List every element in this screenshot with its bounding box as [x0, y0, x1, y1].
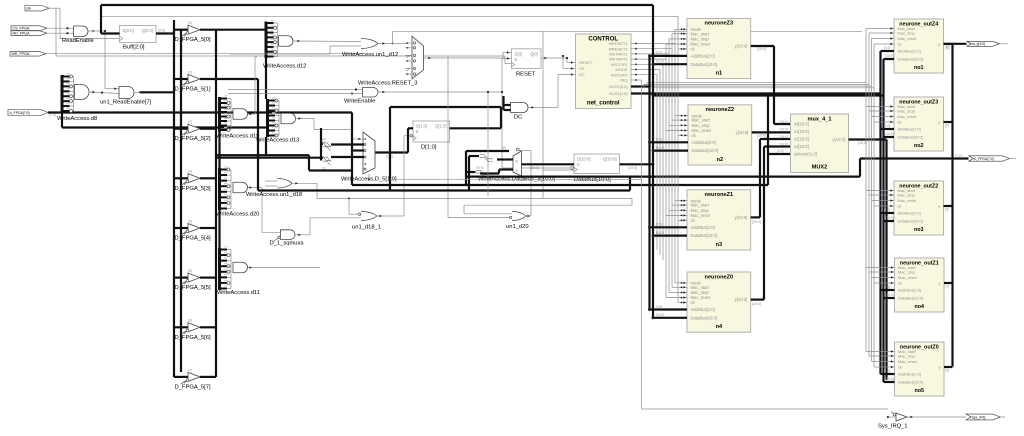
wires n2 input pins [666, 115, 688, 137]
svg-text:WriteAccess.un1_d12: WriteAccess.un1_d12 [342, 52, 398, 58]
AND gate ReadEnable [62, 26, 105, 44]
bus wire MUX2 output [849, 138, 887, 145]
svg-text:selector[1:0]: selector[1:0] [794, 152, 817, 157]
svg-text:D_FPGA_5[7]: D_FPGA_5[7] [175, 384, 211, 390]
svg-text:Q[10:0]: Q[10:0] [603, 157, 617, 162]
output port D_FPGA[7:0] [955, 154, 1016, 161]
bus rail internal data [215, 30, 217, 377]
tri-state buffer D_FPGA_5[5] [174, 269, 216, 291]
svg-text:ck: ck [898, 42, 902, 47]
bus wire n4 y output to MUX2 x3 [751, 147, 791, 307]
svg-text:D_FPGA_5[5]: D_FPGA_5[5] [175, 285, 211, 291]
svg-text:[6]: [6] [188, 319, 192, 323]
svg-text:[10:8]: [10:8] [476, 166, 484, 170]
svg-text:WriteAccess.d19: WriteAccess.d19 [216, 134, 259, 140]
svg-text:[10:0]: [10:0] [780, 128, 788, 132]
module neurone_outZ0 no5 [895, 342, 945, 396]
bus rail D_FPGA input and enable [174, 20, 181, 377]
label bus width [0, 0, 1, 1]
svg-text:AddrBus[2:0]: AddrBus[2:0] [691, 225, 715, 230]
svg-text:RD_FPGA: RD_FPGA [13, 32, 31, 36]
decoder WriteAccess.d13 [256, 97, 299, 143]
svg-text:no5: no5 [914, 388, 924, 394]
tri-state buffer D_FPGA_5[1] [174, 70, 258, 92]
svg-text:D[2:0]: D[2:0] [123, 28, 134, 33]
svg-text:D_FPGA_5[4]: D_FPGA_5[4] [175, 236, 211, 242]
tri-state buffer D_FPGA_5[4] [174, 219, 216, 241]
mux WriteAccess.DataBus_3[10:0] [478, 148, 555, 182]
svg-text:D_FPGA_5[0]: D_FPGA_5[0] [175, 37, 211, 43]
svg-text:x2[10:0]: x2[10:0] [794, 137, 809, 142]
svg-text:[1]: [1] [188, 70, 192, 74]
bus wire BUS1 to AddrBus trunk [631, 85, 651, 88]
svg-text:Mac_stop: Mac_stop [898, 270, 916, 275]
svg-text:n2: n2 [717, 157, 724, 163]
wire clk net to RESET clock [56, 8, 512, 63]
svg-text:E: E [416, 129, 419, 134]
wire clk to CONTROL CK [562, 55, 576, 70]
svg-text:AddrBus[2:0]: AddrBus[2:0] [691, 54, 715, 59]
svg-text:D_FPGA_5[3]: D_FPGA_5[3] [175, 186, 211, 192]
svg-text:ck: ck [898, 365, 902, 370]
bus trunks AddrBus DataBus [650, 5, 654, 318]
wires CONTROL outputs [631, 43, 675, 81]
svg-text:DataBus[10:0]: DataBus[10:0] [692, 148, 719, 153]
input port clk [25, 6, 60, 11]
wire clk net branch to DataBus clock [543, 31, 574, 198]
svg-text:[10:0]: [10:0] [656, 59, 664, 63]
svg-text:DataBus[10:0]: DataBus[10:0] [898, 380, 923, 385]
label bus width [780, 120, 788, 124]
wire IRQ to Sys_IRQ_1 [642, 80, 889, 409]
wires n4 input pins [666, 282, 687, 304]
bus wires into D_5 mux [321, 128, 364, 161]
bus taps into DataBus_3 mux [476, 149, 493, 177]
tri-state buffer D_FPGA_5[7] [174, 368, 216, 390]
svg-text:y: y [938, 42, 940, 47]
svg-text:[2]: [2] [188, 120, 192, 124]
svg-text:[3]: [3] [188, 170, 192, 174]
svg-text:ReadEnable: ReadEnable [62, 38, 94, 44]
svg-text:WriteEnable: WriteEnable [344, 99, 375, 105]
svg-text:net_control: net_control [587, 101, 620, 107]
svg-text:y: y [938, 204, 940, 209]
svg-text:[10:0]: [10:0] [752, 220, 761, 224]
svg-text:AddrBus[1:0]: AddrBus[1:0] [898, 127, 921, 132]
svg-text:[2:0]: [2:0] [656, 138, 662, 142]
svg-text:Mac_reset: Mac_reset [898, 275, 918, 280]
svg-text:D_FPGA[7:0]: D_FPGA[7:0] [974, 157, 994, 161]
wires no3 input pins [866, 189, 894, 207]
svg-text:[10:0]: [10:0] [628, 166, 637, 170]
svg-text:y[10:0]: y[10:0] [735, 215, 748, 220]
wire long net y31 [392, 31, 862, 44]
tri-state buffer D_FPGA_5[3] [174, 170, 216, 192]
wire clk vertical to Buff clock [60, 8, 120, 38]
svg-text:D_FPGA_5[1]: D_FPGA_5[1] [175, 87, 211, 93]
buffer Sys_IRQ_1 [878, 412, 908, 430]
svg-text:y: y [938, 120, 940, 125]
svg-text:Q[1:0]: Q[1:0] [435, 124, 446, 129]
svg-text:[1:0]: [1:0] [884, 369, 890, 373]
svg-text:DataBus[10:0]: DataBus[10:0] [574, 177, 611, 183]
svg-text:rd_y[4:0]: rd_y[4:0] [972, 42, 985, 46]
wire long net y16 clk distribution [101, 15, 678, 17]
svg-text:[10:0]: [10:0] [886, 216, 894, 220]
svg-text:D[10:0]: D[10:0] [577, 157, 591, 162]
svg-text:[10:0]: [10:0] [656, 146, 664, 150]
svg-text:WriteAccess.d20: WriteAccess.d20 [216, 212, 259, 218]
wire d13 select into D_5 mux [352, 130, 364, 141]
mux WriteAccess.RESET_3 [358, 36, 505, 86]
svg-text:D_1_sqmuxa: D_1_sqmuxa [270, 241, 305, 247]
module neuroneZ3 n1 [687, 18, 751, 78]
module neurone_outZ1 no4 [895, 258, 945, 312]
wire un1_d20 to DataBus_3 select [519, 151, 531, 217]
svg-text:y[10:0]: y[10:0] [735, 44, 748, 49]
svg-text:DataBus[10:0]: DataBus[10:0] [691, 233, 718, 238]
svg-text:n3: n3 [716, 242, 723, 248]
bus wire D Q feedback loop [390, 107, 501, 191]
module neuroneZ0 n4 [687, 272, 751, 332]
svg-text:y[10:0]: y[10:0] [735, 297, 748, 302]
svg-text:Buff[2:0]: Buff[2:0] [123, 45, 145, 51]
decoder WriteAccess.d12 [263, 20, 306, 70]
label bus width [780, 135, 788, 139]
svg-text:MUX2: MUX2 [812, 165, 828, 171]
svg-text:E: E [515, 57, 518, 62]
OR gate un1_d18_1 [310, 136, 632, 231]
svg-text:no1: no1 [914, 65, 924, 71]
bus wires into DataBus_3 mux [466, 146, 513, 191]
svg-text:WriteAccess.RESET_3: WriteAccess.RESET_3 [358, 81, 418, 87]
mux WriteAccess.D_5[1:0] [341, 132, 397, 183]
svg-text:[10:0]: [10:0] [757, 47, 766, 51]
svg-text:[10:0]: [10:0] [530, 166, 539, 170]
wire DC output to CONTROL [536, 73, 576, 107]
OR gate un1_d20 [448, 56, 531, 230]
tri-state buffer D_FPGA_5[6] [174, 319, 216, 341]
bus wires no2 AddrBus DataBus [881, 124, 895, 137]
bus wires no3 AddrBus DataBus [881, 208, 895, 221]
bus wire un1_ReadEnable to enable rail [140, 91, 175, 93]
svg-text:Q[0]: Q[0] [530, 51, 538, 56]
bus wires n4 AddrBus DataBus [648, 305, 687, 320]
svg-text:D[0]: D[0] [515, 51, 523, 56]
svg-text:[10:0]: [10:0] [656, 313, 664, 317]
tri-state buffer D_FPGA_5[2] [174, 120, 216, 142]
svg-text:x3[10:0]: x3[10:0] [794, 144, 809, 149]
bus wire n2 y output to MUX2 x1 [752, 131, 791, 137]
register Buff[2:0] [120, 26, 157, 51]
bus wire no2 y output [944, 122, 953, 128]
svg-text:[2:0]: [2:0] [656, 51, 662, 55]
wires no1 input pins [866, 27, 894, 45]
svg-text:[7]: [7] [188, 368, 192, 372]
svg-text:Mac_stop: Mac_stop [898, 109, 916, 114]
decoder WriteAccess.d8 [57, 73, 97, 122]
svg-text:mux_4_1: mux_4_1 [808, 116, 832, 122]
svg-text:[2:0]: [2:0] [656, 223, 662, 227]
svg-text:ck: ck [898, 120, 902, 125]
OR gate WriteAccess.un1_d12 [230, 39, 407, 59]
svg-text:[10:0]: [10:0] [886, 132, 894, 136]
bus wire decoder bar link 2 [265, 58, 267, 99]
svg-text:IRQ: IRQ [620, 78, 627, 83]
wires no2 input pins [866, 105, 894, 123]
input port CS_FPGA [11, 26, 74, 31]
register RESET [502, 49, 567, 78]
wires n1 input pins [666, 28, 687, 50]
svg-text:D[1:0]: D[1:0] [416, 124, 427, 129]
bus vertical rd_y collector [951, 44, 953, 367]
wires n3 input pins [666, 200, 687, 222]
wire WriteAccess.d20 output [248, 186, 263, 188]
AND gate un1_ReadEnable[7] [100, 87, 152, 106]
wire WriteAccess.d19 output [248, 57, 258, 115]
svg-text:no4: no4 [914, 304, 924, 310]
svg-text:[10:0]: [10:0] [780, 135, 788, 139]
svg-text:AddrBus[1:0]: AddrBus[1:0] [898, 372, 921, 377]
bus wires n2 AddrBus DataBus [648, 138, 688, 153]
wire RESET Q to CONTROL [566, 57, 576, 64]
AND gate D_1_sqmuxa [262, 188, 310, 247]
svg-text:no2: no2 [914, 143, 924, 149]
svg-text:RESET: RESET [579, 60, 593, 65]
svg-text:CK: CK [579, 66, 585, 71]
svg-text:WriteAccess.d13: WriteAccess.d13 [256, 138, 299, 144]
output port rd_y[4:0] [944, 41, 1009, 49]
bus wire no3 y output [944, 206, 953, 212]
decoder WriteAccess.d20 [216, 166, 259, 217]
svg-text:Q[2:0]: Q[2:0] [142, 28, 153, 33]
svg-text:[0]: [0] [323, 138, 327, 142]
svg-text:DataBus[10:0]: DataBus[10:0] [691, 315, 718, 320]
bus wire DataBus distribution to output blocks [652, 94, 884, 97]
svg-text:[1:0]: [1:0] [884, 208, 890, 212]
AND gate WriteEnable [228, 88, 502, 105]
bus wire D_5 mux output to D input [375, 128, 413, 158]
svg-text:[10:0]: [10:0] [886, 54, 894, 58]
module CONTROL net_control [576, 34, 632, 109]
svg-text:AddrBus[2:0]: AddrBus[2:0] [692, 140, 716, 145]
bus wire DataBus Q to trunk [620, 163, 655, 170]
bus wire top feedback into Buff D input [101, 5, 653, 34]
svg-text:DC: DC [579, 72, 585, 77]
svg-text:D_FPGA_5[2]: D_FPGA_5[2] [175, 136, 211, 142]
svg-text:DataBus[10:0]: DataBus[10:0] [898, 135, 923, 140]
tri-state buffer D_FPGA_5[0] [174, 21, 266, 43]
svg-text:[2:0]: [2:0] [158, 29, 165, 33]
bus wire y190 [258, 177, 630, 191]
svg-text:neuroneZ0: neuroneZ0 [705, 274, 734, 280]
svg-text:Mac_stop: Mac_stop [898, 31, 916, 36]
output port Sys_IRQ [907, 414, 1005, 420]
svg-text:Sys_IRQ_1: Sys_IRQ_1 [878, 424, 908, 430]
bus wires no1 AddrBus DataBus [881, 46, 895, 59]
wire D_5 select from gray net [368, 174, 370, 180]
wires no4 input pins [866, 266, 895, 284]
svg-text:DataBus[10:0]: DataBus[10:0] [898, 296, 923, 301]
svg-text:DC: DC [514, 115, 522, 121]
svg-text:x0[10:0]: x0[10:0] [794, 122, 809, 127]
svg-text:[1]: [1] [946, 285, 950, 289]
register D[1:0] [404, 121, 450, 151]
svg-text:DataBus[10:0]: DataBus[10:0] [898, 219, 923, 224]
svg-text:0: 0 [516, 160, 518, 164]
svg-text:1: 1 [516, 169, 518, 173]
bus wire Buff Q output to data rail [156, 29, 174, 35]
svg-text:[5]: [5] [188, 269, 192, 273]
wires no5 input pins [866, 350, 895, 368]
wire WriteAccess.d11 output [248, 266, 321, 268]
svg-text:un1_ReadEnable[7]: un1_ReadEnable[7] [100, 100, 152, 106]
svg-text:D[1:0]: D[1:0] [421, 145, 437, 151]
module neurone_outZ2 no3 [894, 181, 944, 235]
wire bundle output block verticals [866, 29, 874, 367]
svg-text:[1:0]: [1:0] [777, 149, 784, 153]
decoder WriteAccess.d19 [216, 95, 259, 139]
module mux_4_1 MUX2 [791, 114, 849, 173]
svg-text:WriteAccess.d12: WriteAccess.d12 [263, 64, 306, 70]
bus wire no4 y output [944, 283, 953, 289]
svg-text:[0]: [0] [946, 46, 950, 50]
svg-text:RESET: RESET [516, 71, 536, 77]
svg-text:[10:0]: [10:0] [656, 231, 664, 235]
svg-text:[1:0]: [1:0] [884, 46, 890, 50]
svg-text:[0]: [0] [946, 369, 950, 373]
svg-text:[7:0]: [7:0] [955, 154, 962, 158]
bus wires no5 AddrBus DataBus [881, 369, 895, 382]
input port RD_FPGA [11, 31, 74, 36]
svg-text:AddrBus[1:0]: AddrBus[1:0] [898, 49, 921, 54]
svg-text:[1:0]: [1:0] [884, 285, 890, 289]
svg-text:y[10:0]: y[10:0] [736, 130, 749, 135]
svg-text:[0]: [0] [188, 21, 192, 25]
svg-text:A_FPGA[7:0]: A_FPGA[7:0] [10, 111, 30, 115]
svg-text:BUS2[1:0]: BUS2[1:0] [609, 91, 627, 96]
bus wire no5 y output [944, 367, 953, 373]
svg-text:AddrBus[1:0]: AddrBus[1:0] [898, 211, 921, 216]
svg-text:neuroneZ2: neuroneZ2 [706, 107, 735, 113]
svg-text:[10:0]: [10:0] [886, 377, 894, 381]
input port WR_FPGA [10, 51, 363, 56]
label bus width [780, 128, 788, 132]
svg-text:clk: clk [27, 7, 32, 11]
svg-text:D_FPGA_5[6]: D_FPGA_5[6] [175, 335, 211, 341]
module neuroneZ1 n3 [687, 190, 751, 250]
module neurone_outZ3 no2 [894, 97, 944, 151]
svg-text:n1: n1 [716, 71, 723, 77]
svg-text:ck: ck [898, 281, 902, 286]
bus wire BUS2 to output blocks AddrBus [631, 92, 881, 94]
svg-text:CS_FPGA: CS_FPGA [13, 27, 30, 31]
svg-text:[10:0]: [10:0] [752, 302, 761, 306]
decoder WriteAccess.d11 [217, 246, 260, 296]
bus wires n3 AddrBus DataBus [648, 223, 687, 238]
svg-text:WR_FPGA: WR_FPGA [12, 52, 30, 56]
bus wire DataBus_3 mux output to DataBus D [522, 163, 575, 170]
bus wire A_FPGA to decoders [62, 113, 266, 130]
svg-text:Mac_reset: Mac_reset [898, 359, 918, 364]
wire WriteAccess.d8 output [89, 91, 120, 94]
svg-text:[10:0]: [10:0] [780, 120, 788, 124]
svg-text:WriteAccess.un1_d18: WriteAccess.un1_d18 [246, 192, 302, 198]
register DataBus[10:0] [574, 154, 620, 183]
svg-text:un1_d18_1: un1_d18_1 [352, 225, 381, 231]
bus wires no4 AddrBus DataBus [881, 285, 895, 298]
svg-text:Sys_IRQ: Sys_IRQ [972, 415, 986, 419]
bus wire no1 y output [944, 44, 953, 50]
svg-text:DataBus[10:0]: DataBus[10:0] [691, 62, 718, 67]
bus wire n1 y output to MUX2 x0 [751, 46, 791, 124]
wires gray to output blocks [644, 83, 874, 88]
svg-text:[3]: [3] [945, 124, 949, 128]
svg-text:[8]: [8] [502, 146, 506, 150]
svg-text:n4: n4 [716, 324, 723, 330]
svg-text:neuroneZ1: neuroneZ1 [705, 192, 734, 198]
svg-text:Mac_reset: Mac_reset [898, 114, 918, 119]
svg-text:x1[10:0]: x1[10:0] [794, 129, 809, 134]
svg-text:DataBus[10:0]: DataBus[10:0] [898, 57, 923, 62]
label bus width [780, 143, 788, 147]
svg-text:BUS1[2:0]: BUS1[2:0] [609, 84, 627, 89]
svg-text:AddrBus[2:0]: AddrBus[2:0] [691, 307, 715, 312]
AND gate DC [504, 96, 537, 121]
svg-text:Mac_stop: Mac_stop [898, 354, 916, 359]
bus taps into D_5 mux [323, 138, 331, 171]
wire bundle control verticals [657, 16, 678, 302]
svg-text:[10:0]: [10:0] [757, 134, 766, 138]
bus wire MUX2 selector [767, 92, 791, 185]
svg-text:Mac_reset: Mac_reset [898, 198, 918, 203]
bus wires data to middle [216, 79, 352, 191]
bus wires n1 AddrBus DataBus [648, 51, 687, 65]
bus verticals AddrBus DataBus to output blocks [881, 51, 887, 382]
wire ReadEnable output to un1_ReadEnable [104, 30, 119, 90]
svg-text:Mac_reset: Mac_reset [898, 36, 918, 41]
svg-text:neuroneZ3: neuroneZ3 [705, 21, 734, 27]
OR gate WriteAccess.un1_d18 [246, 179, 317, 199]
input port A_FPGA[7:0] [8, 110, 352, 118]
wire WriteEnable to enable pins [501, 59, 573, 170]
svg-text:Mac_stop: Mac_stop [898, 193, 916, 198]
svg-text:y[10:0]: y[10:0] [832, 137, 845, 142]
wire WriteAccess.d12 output [293, 40, 361, 42]
svg-text:E: E [577, 162, 580, 167]
wire gray middle horizontals [390, 91, 642, 196]
svg-text:[1:0]: [1:0] [884, 124, 890, 128]
bus wire decoder bar link [218, 132, 220, 249]
module neurone_outZ4 no1 [894, 19, 944, 73]
svg-text:[4]: [4] [188, 219, 192, 223]
svg-text:AddrBus[1:0]: AddrBus[1:0] [898, 288, 921, 293]
svg-text:un1_d20: un1_d20 [506, 224, 529, 230]
svg-text:[10:0]: [10:0] [780, 143, 788, 147]
svg-text:no3: no3 [914, 227, 924, 233]
wire WriteAccess.d13 output [295, 117, 352, 129]
svg-text:WriteAccess.d11: WriteAccess.d11 [217, 290, 260, 296]
svg-text:[10:0]: [10:0] [886, 293, 894, 297]
bus wire y185 [352, 113, 768, 187]
svg-text:ck: ck [898, 204, 902, 209]
bus wire y176 [466, 159, 860, 177]
svg-text:y: y [939, 281, 941, 286]
svg-text:[2:0]: [2:0] [656, 305, 662, 309]
svg-text:MSTOP2: MSTOP2 [611, 72, 628, 77]
svg-text:y: y [939, 365, 941, 370]
bus wire n3 y output to MUX2 x2 [751, 139, 791, 224]
